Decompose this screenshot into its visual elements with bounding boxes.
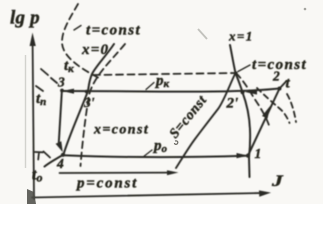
svg-text:pо: pо <box>152 138 168 155</box>
node 4 <box>61 153 65 157</box>
svg-text:tо: tо <box>32 167 42 185</box>
leader dash to t=const (top-left) <box>74 26 81 31</box>
svg-text:t=const: t=const <box>86 23 141 39</box>
node 2 <box>278 87 282 91</box>
arrow into point 4 <box>56 141 63 152</box>
tick for label p_o <box>143 150 152 157</box>
node 3 <box>60 89 64 93</box>
isotherm t_k dashed hyperbola (top left) <box>62 4 98 78</box>
scan artifact speck right of p_o <box>175 141 178 145</box>
arrow into point 1 <box>237 153 249 158</box>
quality line x=const dashed <box>81 44 126 166</box>
leader to t=const (right) <box>238 65 250 72</box>
isotherm t_k dashed horizontal <box>93 73 236 75</box>
scan artifact bottom-left corner <box>27 189 36 204</box>
svg-text:2': 2' <box>226 96 239 112</box>
svg-text:pк: pк <box>154 73 170 90</box>
svg-text:x=1: x=1 <box>228 29 254 44</box>
arrow on 1-2 <box>262 106 271 119</box>
svg-text:t: t <box>286 76 291 92</box>
isotherm t dashed below 2 <box>287 94 296 122</box>
scan artifact smudge near x=1 <box>198 29 207 39</box>
isobar p_k line <box>62 89 280 92</box>
tick for label p_k <box>146 83 154 90</box>
node 3' <box>85 90 89 94</box>
isentrope S=const <box>176 73 236 168</box>
svg-text:J: J <box>271 173 284 191</box>
node 1 <box>246 154 250 158</box>
axis lg p (vertical) <box>30 33 36 200</box>
isotherm t_o dashes near point 4 <box>35 152 50 160</box>
svg-text:3: 3 <box>57 75 65 90</box>
throttle line 3-4 <box>59 92 62 143</box>
compression line 1-2 <box>248 89 280 156</box>
svg-text:tп: tп <box>36 91 46 108</box>
saturation curve x=0 <box>45 44 115 167</box>
svg-text:1: 1 <box>255 146 262 161</box>
dashed isotherm branch between 2' and 2 <box>257 88 290 123</box>
svg-text:2: 2 <box>272 69 280 84</box>
svg-text:p=const: p=const <box>75 176 138 192</box>
scan artifact left page edge <box>25 55 27 168</box>
svg-text:S=const: S=const <box>167 93 211 142</box>
isotherm t through point 2, solid stub <box>280 81 287 89</box>
scan artifact dot top right <box>304 8 307 11</box>
isobar p_o line <box>63 155 246 157</box>
svg-text:4: 4 <box>56 156 64 171</box>
svg-text:x=0: x=0 <box>81 42 109 58</box>
node tk crossing <box>234 71 237 74</box>
arrow into point 2' <box>245 90 257 95</box>
saturation curve x=1 <box>230 45 250 177</box>
axis J (horizontal) <box>32 190 271 197</box>
svg-text:lg p: lg p <box>10 8 40 29</box>
p=const arrow <box>60 170 179 175</box>
arrow into point 3 <box>62 89 74 94</box>
svg-text:tк: tк <box>64 58 74 75</box>
isotherm t_p dashes near point 3 <box>36 69 57 91</box>
svg-text:x=const: x=const <box>93 123 149 138</box>
node 2' <box>241 90 245 94</box>
svg-text:3': 3' <box>83 95 95 110</box>
isotherm t_k dashed superheated branch <box>236 73 270 128</box>
